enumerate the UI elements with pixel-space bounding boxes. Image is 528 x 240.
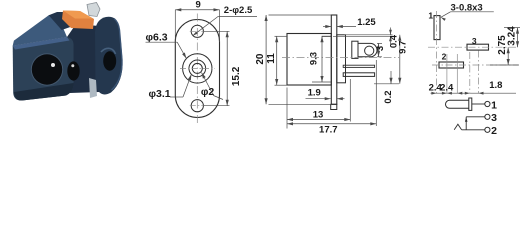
photo: jack right side face	[67, 24, 99, 93]
side view: center pin terminal with hole	[352, 41, 377, 58]
dimension 9.7	[398, 35, 409, 84]
svg-text:2: 2	[442, 52, 447, 62]
schematic: terminal 2 circle	[485, 127, 490, 132]
svg-text:9.7: 9.7	[398, 41, 409, 54]
svg-text:13: 13	[313, 110, 324, 121]
front view: center pin circle (φ2)	[192, 63, 202, 73]
dimension 0.4	[333, 28, 400, 49]
side view: body outline	[287, 34, 331, 86]
dimension 0.2	[374, 71, 399, 104]
rear view: pin 2 centerline	[432, 64, 518, 66]
svg-text:φ2: φ2	[201, 86, 215, 98]
svg-text:3: 3	[472, 36, 477, 46]
label φ6.3 with leader	[146, 31, 187, 58]
schematic: terminal 3 circle	[485, 114, 490, 119]
svg-text:3: 3	[375, 46, 386, 51]
side view: internal ledge line	[322, 35, 332, 37]
svg-text:2: 2	[491, 125, 497, 135]
wire riser to terminal 3 with arrow	[465, 117, 485, 130]
label terminal 2	[491, 125, 497, 137]
wire to terminal 1	[472, 103, 485, 105]
front view: flange outline (stadium)	[175, 20, 219, 118]
photo: jack front face	[13, 37, 74, 101]
photo: jack top back piece	[49, 12, 76, 30]
svg-text:1.8: 1.8	[489, 80, 502, 91]
schematic: switch contact spring	[454, 124, 461, 130]
dimension 17.7	[287, 60, 376, 136]
svg-text:0.2: 0.2	[383, 90, 394, 103]
side view: upper terminal lug	[343, 65, 374, 67]
photo: orange contact	[62, 11, 94, 30]
dimension 13	[287, 79, 350, 129]
svg-text:3: 3	[491, 112, 497, 124]
svg-text:3.24: 3.24	[507, 26, 518, 46]
rear view: pin 3 / axis centerline	[428, 46, 518, 48]
svg-text:20: 20	[255, 53, 266, 65]
svg-text:1: 1	[428, 10, 433, 20]
svg-text:15.2: 15.2	[231, 66, 242, 86]
front view: inner circle (φ3.1)	[189, 60, 206, 77]
svg-text:17.7: 17.7	[319, 125, 338, 136]
rear view: pin 2	[439, 62, 464, 68]
side view: axis centerline	[282, 57, 399, 59]
svg-text:11: 11	[266, 53, 277, 64]
schematic: plug barrel symbol	[446, 100, 470, 108]
svg-text:1.25: 1.25	[357, 17, 376, 28]
label 1 (pin number)	[428, 10, 433, 20]
photo: jack top face	[13, 14, 67, 46]
photo: front face bottom shade	[14, 83, 74, 101]
photo: gap between body and flange ear	[89, 78, 97, 98]
dimension 11 (body height)	[266, 36, 288, 85]
dimension 9 (flange width)	[175, 0, 219, 42]
label terminal 1	[491, 99, 497, 111]
dimension 2.75 (pin3 to pin2)	[490, 35, 519, 65]
side view: flange plate	[331, 15, 337, 104]
dimension 3.24 (pin1 to pin3)	[504, 26, 520, 47]
dimension 1.8	[462, 52, 516, 95]
side view: lower terminal lug	[343, 73, 374, 77]
dimension 9.3 (inner height)	[308, 36, 331, 82]
svg-text:2.4: 2.4	[440, 83, 454, 94]
label 3 (pin number)	[472, 36, 477, 46]
label 3-0.8x3 with leader	[441, 3, 494, 21]
label 2 (pin number)	[442, 52, 447, 62]
dimension 15.2 (hole spacing)	[204, 31, 243, 105]
rear view: pin 1 (center terminal)	[434, 16, 440, 40]
dimension 2.4 2.4 (pin x-spacing)	[429, 54, 463, 95]
photo: flange ear hole	[101, 48, 116, 70]
svg-text:2-φ2.5: 2-φ2.5	[224, 5, 253, 16]
rear view: pin 1 centerline	[435, 11, 437, 93]
label φ2 with leader	[201, 73, 223, 100]
svg-text:φ3.1: φ3.1	[149, 88, 171, 100]
photo: flange plate	[95, 17, 123, 95]
dimension 1.25 (flange thickness)	[323, 17, 376, 28]
label φ3.1 with leader	[149, 74, 192, 100]
label terminal 3	[491, 112, 497, 124]
rear view: pin 3	[467, 44, 489, 50]
photo: metal contact tab	[87, 3, 100, 17]
dimension 3 (terminal height)	[375, 43, 386, 56]
rear view: pin 3 vertical reference	[478, 51, 480, 94]
wire to terminal 2	[462, 129, 485, 131]
label 2-φ2.5 (mounting holes)	[193, 5, 257, 36]
front view: bottom mounting hole	[190, 100, 205, 112]
front view: vertical centerline	[196, 14, 198, 124]
svg-text:1.9: 1.9	[308, 87, 321, 98]
dimension 20 (flange height)	[255, 15, 332, 104]
front view: top mounting hole	[190, 25, 205, 37]
dimension 1.9 (pin width)	[306, 87, 345, 100]
schematic: terminal 1 circle	[485, 101, 490, 106]
side view: rear block	[337, 35, 346, 83]
svg-text:9: 9	[196, 0, 201, 11]
svg-text:9.3: 9.3	[308, 52, 319, 65]
front view: horizontal centerline of circles	[180, 67, 215, 69]
front view: boss circle (φ6.3)	[183, 54, 212, 83]
photo: barrel hole	[31, 53, 63, 85]
schematic: center pin bar	[469, 98, 472, 110]
photo: small hole	[67, 61, 79, 80]
side view: pcb pin below flange	[331, 104, 337, 109]
svg-text:φ6.3: φ6.3	[146, 31, 168, 43]
svg-text:1: 1	[491, 99, 497, 111]
